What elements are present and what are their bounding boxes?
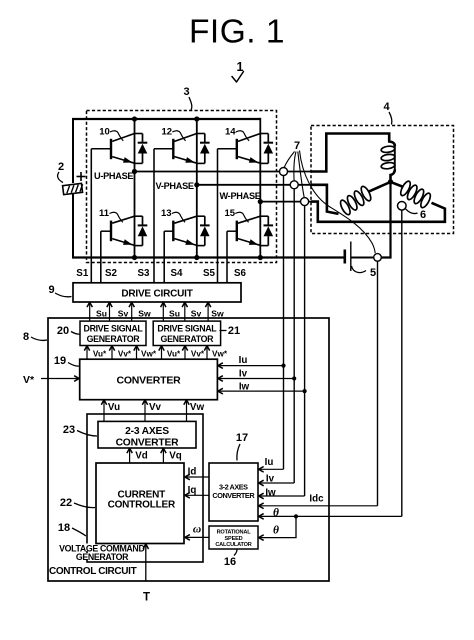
svg-text:CONVERTER: CONVERTER [116, 438, 180, 449]
svg-text:S2: S2 [105, 268, 118, 279]
Iu into 3-2 converter [259, 468, 284, 470]
svg-text:Vv: Vv [149, 402, 162, 413]
drive signal generator box 20 [80, 321, 146, 345]
svg-text:Sv: Sv [191, 309, 202, 319]
svg-text:Vu*: Vu* [93, 350, 107, 359]
svg-text:CONTROL CIRCUIT: CONTROL CIRCUIT [49, 566, 137, 577]
plus sign [77, 176, 86, 178]
motor W winding wire [311, 202, 445, 222]
svg-text:DRIVE SIGNAL: DRIVE SIGNAL [157, 324, 217, 334]
svg-text:9: 9 [48, 284, 54, 296]
motor W coil [419, 192, 432, 209]
svg-text:Vw: Vw [190, 402, 205, 413]
gate lead S-wire for Q13 [164, 230, 173, 232]
svg-text:10: 10 [99, 127, 110, 138]
gate lead S-wire for Q14 [218, 148, 237, 150]
motor W coil tail [391, 182, 404, 187]
svg-text:18: 18 [58, 522, 70, 534]
svg-text:23: 23 [63, 424, 75, 436]
motor V coil [339, 199, 352, 216]
theta branch into speed calculator [262, 516, 296, 537]
svg-text:Sw: Sw [138, 309, 151, 319]
omega output arrow [185, 536, 209, 538]
svg-text:3: 3 [183, 86, 189, 98]
svg-text:V*: V* [23, 374, 35, 386]
svg-text:Iw: Iw [265, 488, 276, 499]
svg-text:4: 4 [383, 101, 390, 113]
gate lead S-wire for Q10 [91, 148, 111, 150]
Id output arrow [185, 476, 209, 478]
freewheel diode D14 [260, 133, 268, 135]
torque command arrow T [145, 548, 147, 581]
inverter dashed box 3 [87, 111, 277, 263]
svg-text:CONVERTER: CONVERTER [212, 491, 255, 500]
svg-text:CONTROLLER: CONTROLLER [108, 500, 176, 511]
svg-text:Su: Su [169, 309, 180, 319]
converter box 19 [80, 359, 218, 400]
theta into 3-2 converter [259, 515, 402, 517]
IGBT transistor Q12 [172, 139, 174, 159]
node V-phase output [194, 182, 199, 187]
svg-text:2-3 AXES: 2-3 AXES [125, 426, 169, 437]
svg-text:11: 11 [99, 208, 110, 219]
Iu sensor drop wire [283, 175, 285, 469]
svg-text:5: 5 [370, 267, 376, 279]
svg-text:DRIVE SIGNAL: DRIVE SIGNAL [84, 324, 144, 334]
motor U coil [381, 145, 396, 153]
motor U winding wire [311, 134, 395, 172]
svg-text:θ: θ [273, 525, 279, 537]
svg-text:GENERATOR: GENERATOR [161, 334, 215, 344]
V-phase leg wire [196, 119, 198, 185]
svg-text:7: 7 [294, 140, 300, 152]
svg-text:S6: S6 [234, 268, 247, 279]
svg-text:S1: S1 [76, 268, 89, 279]
Iv sensor drop wire [293, 188, 295, 483]
drive circuit box 9 [73, 283, 241, 302]
current sensor on U phase [280, 168, 288, 176]
svg-text:ω: ω [193, 523, 201, 535]
neutral return wire from star point [381, 182, 391, 258]
svg-text:CONVERTER: CONVERTER [116, 375, 181, 387]
Su Sv Sw arrows left generator [89, 302, 91, 321]
svg-text:6: 6 [420, 209, 426, 221]
svg-text:8: 8 [23, 331, 29, 343]
svg-text:17: 17 [236, 432, 248, 444]
svg-text:14: 14 [225, 127, 236, 138]
svg-text:16: 16 [224, 556, 236, 568]
svg-text:GENERATOR: GENERATOR [87, 334, 141, 344]
W-phase output wire to motor [260, 201, 311, 203]
voltage command generator title [62, 544, 142, 552]
Iw feedback line to converter [218, 390, 305, 392]
Iv feedback line to converter [218, 378, 294, 380]
freewheel diode D12 [197, 133, 205, 135]
drive signal generator box 21 [153, 321, 220, 345]
Iw junction dot [303, 389, 307, 393]
Iw sensor drop wire [304, 205, 306, 496]
svg-text:21: 21 [228, 325, 240, 337]
svg-text:DRIVE CIRCUIT: DRIVE CIRCUIT [121, 289, 192, 300]
IGBT transistor Q11 [110, 221, 112, 242]
Idc into 3-2 converter [259, 505, 378, 507]
node bottom bus W [258, 255, 263, 260]
svg-text:20: 20 [57, 325, 69, 337]
pointer 7 to V sensor [294, 152, 296, 181]
svg-text:Vu*: Vu* [167, 350, 181, 359]
svg-text:Iq: Iq [188, 485, 197, 496]
svg-text:2: 2 [58, 161, 64, 173]
W-phase leg lower wire [259, 202, 261, 259]
current sensor on V phase [290, 181, 298, 189]
gate lead S-wire for Q12 [154, 148, 173, 150]
svg-text:Vq: Vq [169, 451, 182, 462]
Iv into 3-2 converter [259, 482, 295, 484]
gate lead S-wire for Q11 [101, 230, 111, 232]
svg-text:15: 15 [225, 208, 236, 219]
node top bus V [194, 116, 199, 121]
battery 5 plate short [343, 250, 346, 264]
svg-text:Sw: Sw [211, 309, 224, 319]
freewheel diode D15 [260, 215, 268, 217]
svg-text:19: 19 [54, 355, 66, 367]
V-phase leg lower wire [196, 185, 198, 259]
node top bus U [132, 116, 137, 121]
left DC wire upper [72, 118, 74, 183]
U-phase output wire to motor [135, 171, 312, 173]
voltage command generator box 18 [87, 414, 203, 562]
IGBT transistor Q15 [236, 221, 238, 242]
current sensor on W phase [301, 198, 309, 206]
IGBT transistor Q14 [236, 139, 238, 159]
svg-text:Vu: Vu [108, 402, 120, 413]
IGBT transistor Q10 [110, 139, 112, 159]
left DC wire lower [72, 194, 74, 259]
Vu Vv Vw arrows into converter [103, 400, 105, 422]
V-phase output wire to motor [197, 184, 311, 186]
Iu feedback line to converter [218, 365, 284, 367]
motor V coil tail [369, 182, 391, 192]
DC positive bus wire [72, 118, 260, 120]
theta branch dot [294, 514, 298, 518]
rotational speed calculator box 16 [209, 526, 258, 549]
Su Sv Sw arrows right generator [162, 302, 164, 321]
Vu* Vv* Vw* command arrows [86, 346, 88, 360]
Idc drop wire [377, 261, 379, 506]
Vd Vq arrows [129, 448, 131, 463]
svg-text:Iv: Iv [239, 368, 248, 379]
current controller box 22 [96, 463, 184, 544]
svg-text:Iu: Iu [265, 457, 274, 468]
svg-text:S4: S4 [171, 268, 184, 279]
Iq output arrow [185, 494, 209, 496]
svg-text:GENERATOR: GENERATOR [76, 552, 129, 562]
position sensor 6 [398, 202, 407, 211]
motor dashed box 4 [311, 126, 454, 234]
svg-text:Id: Id [188, 466, 197, 477]
IGBT transistor Q13 [172, 221, 174, 242]
motor U coil conductor [394, 145, 396, 170]
svg-text:Vw*: Vw* [212, 350, 228, 359]
svg-text:Idc: Idc [309, 494, 324, 505]
node bottom bus U [132, 255, 137, 260]
Iw into 3-2 converter [259, 495, 305, 497]
motor V winding wire [311, 185, 339, 214]
svg-text:Iu: Iu [239, 355, 248, 366]
gate lead S-wire for Q15 [227, 230, 237, 232]
battery 5 plate long [350, 242, 352, 272]
svg-text:SPEED: SPEED [225, 536, 243, 542]
3-2 axes converter box 17 [209, 463, 258, 521]
svg-text:FIG. 1: FIG. 1 [189, 14, 285, 51]
node U-phase output [132, 169, 137, 174]
DC wire between battery and sensor [352, 257, 375, 259]
2-3 axes converter box 23 [98, 421, 196, 448]
theta drop wire [401, 210, 403, 516]
pointer 7 to U sensor [284, 152, 294, 168]
svg-text:S3: S3 [138, 268, 151, 279]
U-phase leg wire [134, 119, 136, 172]
svg-text:Su: Su [96, 309, 107, 319]
motor U coil tail [391, 170, 395, 182]
svg-text:U-PHASE: U-PHASE [94, 171, 133, 181]
svg-text:12: 12 [162, 127, 173, 138]
U-phase leg lower wire [134, 172, 136, 259]
svg-text:ROTATIONAL: ROTATIONAL [217, 530, 252, 536]
node bottom bus V [194, 255, 199, 260]
svg-text:Vw*: Vw* [141, 350, 157, 359]
Iu junction dot [281, 364, 285, 368]
svg-text:T: T [143, 592, 150, 604]
svg-text:θ: θ [273, 507, 279, 519]
svg-text:Iw: Iw [239, 382, 250, 393]
freewheel diode D10 [135, 133, 143, 135]
svg-text:V-PHASE: V-PHASE [156, 181, 194, 191]
Iv junction dot [292, 376, 296, 380]
freewheel diode D13 [197, 215, 205, 217]
svg-text:22: 22 [60, 497, 72, 509]
svg-text:Vv*: Vv* [118, 350, 132, 359]
svg-text:Iv: Iv [266, 474, 275, 485]
DC current sensor circle [374, 254, 382, 262]
svg-text:CALCULATOR: CALCULATOR [215, 542, 251, 548]
svg-text:Vd: Vd [135, 451, 148, 462]
node W-phase output [258, 199, 263, 204]
W-phase leg wire [259, 118, 261, 202]
svg-text:Vv*: Vv* [191, 350, 205, 359]
svg-text:13: 13 [161, 208, 172, 219]
control circuit box 8 [48, 318, 329, 581]
pointer 7 to W sensor [298, 152, 304, 198]
freewheel diode D11 [135, 215, 143, 217]
pointer 7 to DC sensor [300, 151, 376, 254]
svg-text:W-PHASE: W-PHASE [220, 191, 261, 201]
DC source 2 hatched symbol [63, 183, 84, 194]
svg-text:S5: S5 [203, 268, 216, 279]
svg-text:Sv: Sv [118, 309, 129, 319]
DC negative bus wire [72, 256, 344, 258]
motor star point node [388, 179, 393, 184]
V* input arrow [41, 378, 76, 380]
